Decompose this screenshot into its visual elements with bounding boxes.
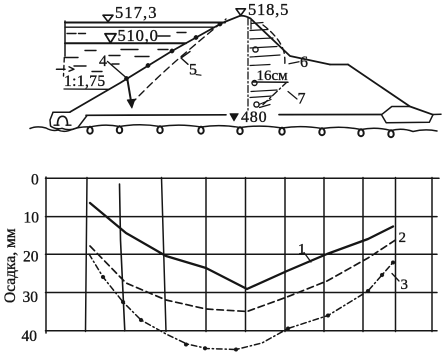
svg-text:517,3: 517,3 — [115, 3, 158, 22]
drainage prism — [382, 107, 434, 123]
reservoir left wall dashed continuation — [63, 58, 66, 77]
16cm underline — [253, 81, 288, 83]
core right boundary dashed (line 6) — [263, 25, 285, 67]
water level marker 510.0 — [105, 34, 116, 43]
upstream toe structure outline — [53, 111, 70, 113]
ground surface wavy line — [30, 125, 437, 132]
dam axis dash-dot centerline — [247, 18, 249, 113]
svg-text:7: 7 — [298, 91, 306, 108]
chart vertical gridlines — [86, 178, 433, 332]
svg-text:3: 3 — [401, 277, 409, 293]
label 5 tail — [196, 74, 201, 77]
chart y axis — [45, 177, 47, 333]
settlement gauge circles on axis — [252, 47, 259, 107]
svg-text:5: 5 — [189, 62, 197, 79]
base line right stub — [433, 113, 441, 115]
svg-text:2: 2 — [399, 230, 407, 246]
crest level marker 518.5 — [236, 9, 246, 16]
reservoir left wall — [64, 21, 66, 56]
svg-text:6: 6 — [300, 54, 308, 71]
settlement curve 2 dashed — [90, 239, 397, 312]
downstream slope lower — [348, 65, 433, 115]
svg-text:10: 10 — [24, 210, 40, 227]
dam base line right — [279, 114, 382, 116]
ground teardrop symbols — [87, 126, 393, 137]
svg-text:0: 0 — [31, 171, 39, 188]
label 4 pointer line — [108, 62, 127, 78]
settlement curve 3 dash-dot — [89, 254, 393, 350]
dashed settlement line 5 — [131, 19, 226, 104]
toe drain arch — [58, 116, 68, 125]
small dashed arrow at left — [57, 68, 66, 70]
chart horizontal gridlines — [46, 178, 440, 330]
svg-text:Осадка, мм: Осадка, мм — [2, 228, 19, 303]
dam crest — [240, 16, 251, 19]
slope ratio underline — [64, 88, 109, 90]
settlement marks on upstream slope — [124, 22, 222, 81]
downstream slope upper — [251, 19, 331, 65]
label 7 pointer — [288, 92, 297, 100]
dam base line left — [86, 114, 226, 117]
water hatch dashes — [65, 33, 186, 72]
settlement arrow from point on slope — [128, 80, 132, 101]
dam axis line in chart (crooked gridline) — [120, 184, 125, 331]
water level marker 517.3 — [103, 15, 113, 21]
curve label 3 pointer — [392, 274, 399, 282]
core hatch strokes — [250, 21, 280, 108]
svg-text:1:1,75: 1:1,75 — [64, 73, 106, 90]
curve 3 dot markers — [101, 261, 395, 352]
upstream slope line — [70, 16, 240, 112]
label 5 pointer — [181, 52, 190, 65]
curve label 1 pointer — [304, 253, 311, 263]
svg-text:20: 20 — [23, 249, 39, 266]
svg-text:40: 40 — [22, 328, 38, 345]
elevation marker 480 — [230, 114, 238, 121]
svg-text:510,0: 510,0 — [118, 26, 159, 45]
water surface line 517.3 — [65, 22, 225, 24]
label 6 pointer — [289, 62, 299, 64]
core lower boundary dash-dot (line 7) — [261, 82, 287, 107]
svg-text:518,5: 518,5 — [248, 0, 289, 19]
water surface line 510.0 — [65, 42, 186, 44]
downstream berm — [330, 64, 348, 66]
settlement curve 1 solid — [90, 203, 393, 289]
svg-text:480: 480 — [241, 109, 267, 126]
svg-text:30: 30 — [23, 289, 39, 306]
svg-text:1: 1 — [298, 242, 306, 258]
water surface second line — [65, 26, 214, 28]
svg-text:4: 4 — [99, 53, 107, 70]
